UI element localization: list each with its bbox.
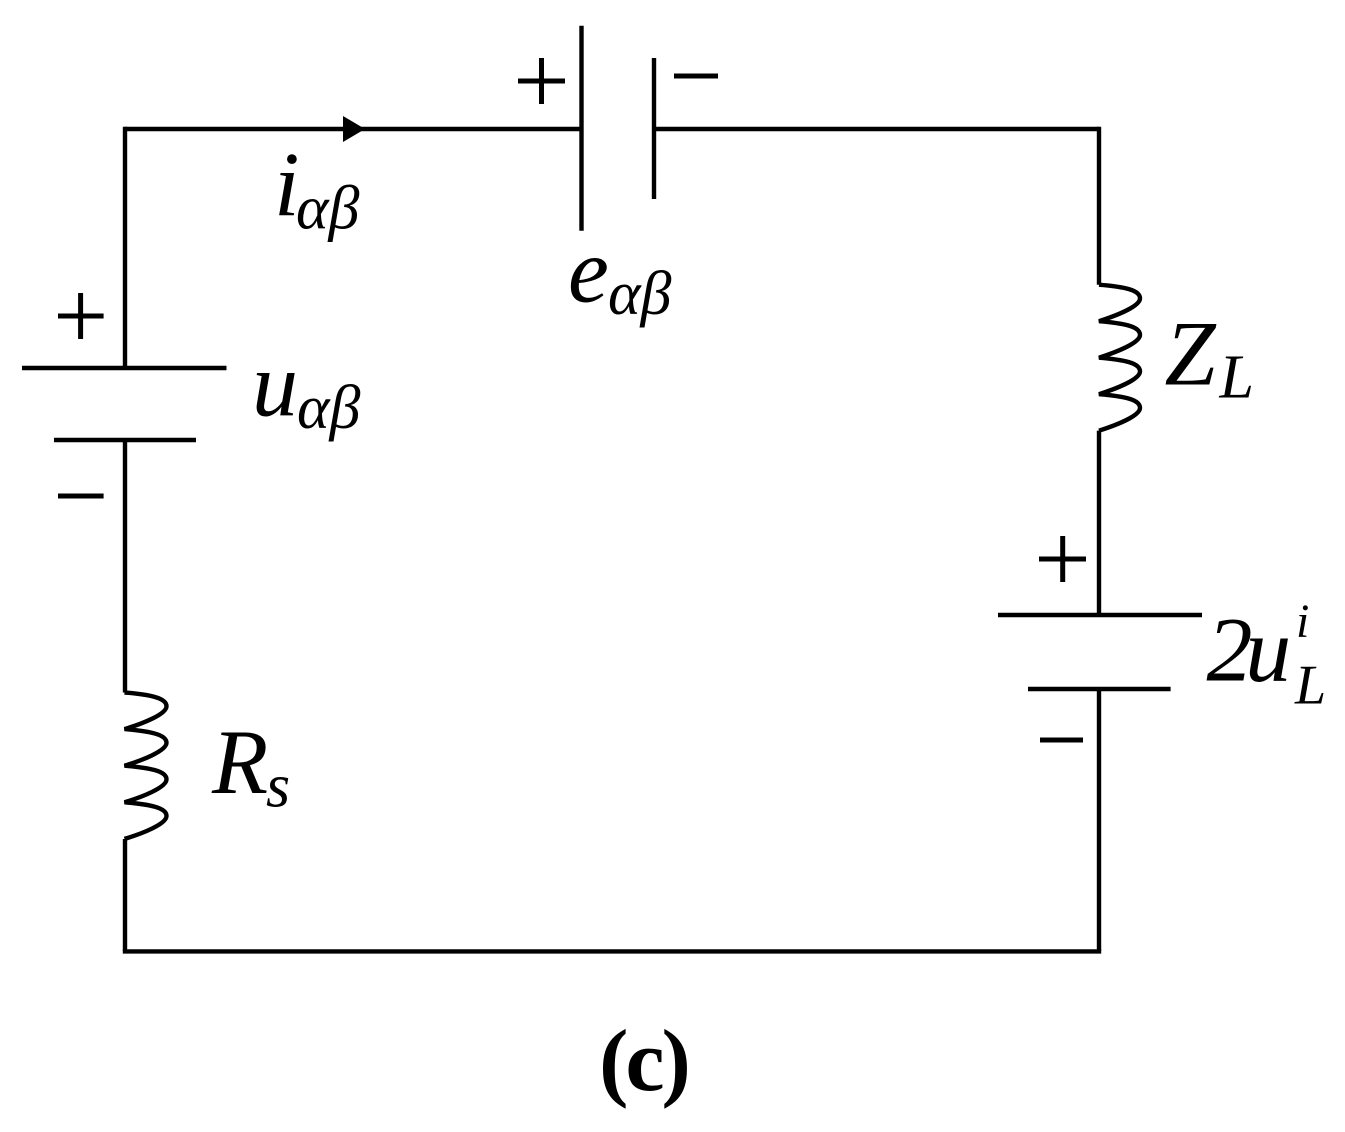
- svg-text:(c): (c): [599, 1013, 688, 1110]
- svg-text:u: u: [1245, 599, 1291, 701]
- svg-text:e: e: [568, 220, 609, 322]
- svg-text:R: R: [211, 711, 268, 813]
- svg-text:αβ: αβ: [297, 374, 361, 442]
- svg-text:u: u: [252, 334, 298, 436]
- svg-text:Z: Z: [1165, 303, 1217, 405]
- svg-text:i: i: [1296, 595, 1309, 648]
- svg-text:L: L: [1219, 344, 1254, 412]
- svg-text:s: s: [266, 753, 290, 821]
- svg-text:αβ: αβ: [608, 260, 672, 328]
- svg-text:L: L: [1294, 655, 1326, 717]
- svg-text:αβ: αβ: [296, 175, 360, 243]
